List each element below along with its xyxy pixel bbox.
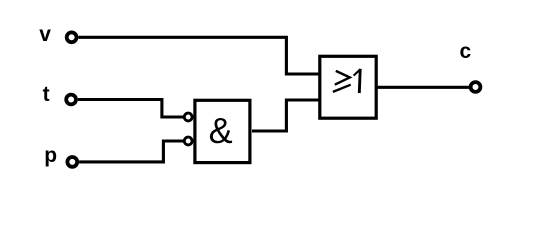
svg-text:v: v	[39, 23, 51, 46]
wire v to OR gate input 1	[78, 37, 318, 74]
svg-text:c: c	[460, 40, 472, 63]
wire AND output to OR gate input 2	[252, 100, 319, 131]
output terminal c	[471, 82, 481, 92]
wire p to AND gate inverted input 2	[79, 141, 185, 162]
svg-text:&: &	[209, 110, 233, 151]
OR gate symbol >=1 : slanted bar	[333, 85, 351, 92]
OR gate symbol >=1 : digit 1 flag	[354, 69, 361, 75]
OR gate symbol >=1 : digit 1 stem	[358, 69, 362, 93]
input terminal p	[67, 157, 77, 167]
OR gate body	[320, 56, 376, 118]
wire t to AND gate inverted input 1	[78, 100, 185, 118]
wire OR output to terminal c	[375, 86, 469, 89]
AND gate body	[195, 100, 250, 162]
inverting bubble on AND input 2	[184, 137, 192, 145]
OR gate symbol >=1 : greater-equal chevron	[335, 71, 350, 85]
input terminal t	[66, 95, 76, 105]
svg-text:p: p	[44, 144, 57, 167]
svg-text:t: t	[43, 83, 50, 106]
input terminal v	[67, 32, 77, 42]
inverting bubble on AND input 1	[184, 113, 192, 121]
